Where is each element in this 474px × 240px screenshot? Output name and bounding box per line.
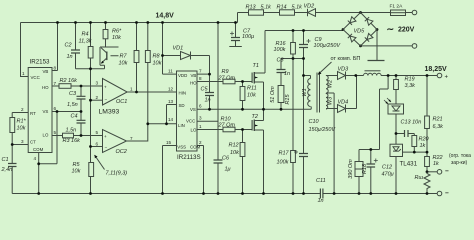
svg-text:+: + [104, 134, 107, 139]
wire VSS link [163, 146, 177, 194]
wire C9/C10 column [303, 31, 305, 194]
svg-text:11,3k: 11,3k [79, 39, 92, 45]
node dots VB 2113 [208, 73, 211, 76]
wire center tap [326, 93, 334, 194]
resistor R20 [412, 136, 417, 147]
wire output minus 1 [427, 171, 437, 173]
svg-text:VD1: VD1 [173, 46, 184, 52]
svg-text:C12: C12 [382, 165, 392, 171]
capacitor C10 electrolytic [299, 154, 308, 157]
wire W2 top to VD3 [326, 75, 338, 77]
svg-text:R14: R14 [277, 5, 287, 11]
transformer W1 winding [308, 79, 311, 107]
wire OC2 out riser to LIN/SD [127, 105, 177, 142]
svg-text:VB: VB [191, 73, 197, 78]
svg-text:10k: 10k [17, 126, 26, 132]
node dots LO line [80, 134, 83, 137]
node dots bottom rail [37, 192, 40, 195]
svg-text:TL431: TL431 [400, 161, 418, 168]
wire R12 column [242, 130, 244, 194]
IC TL431 [390, 144, 403, 156]
svg-text:COM: COM [190, 145, 201, 150]
svg-text:R12: R12 [229, 143, 239, 149]
resistor R11 [240, 87, 245, 101]
svg-text:3: 3 [96, 81, 99, 86]
svg-text:10k: 10k [112, 35, 121, 41]
svg-text:1,5n: 1,5n [66, 128, 77, 134]
svg-text:OC1: OC1 [116, 99, 127, 105]
svg-text:390 Om: 390 Om [348, 159, 354, 179]
terminal AC1 [412, 10, 417, 15]
wire OC1 out to HIN [127, 91, 176, 93]
svg-text:7: 7 [54, 81, 57, 86]
svg-text:VS: VS [190, 107, 196, 112]
resistor R18 [355, 162, 363, 177]
wire IR2153 HO to R2 to OC1+ [52, 85, 103, 87]
svg-text:12: 12 [168, 87, 174, 92]
svg-text:1,5n: 1,5n [67, 102, 78, 108]
wire R7 column [136, 23, 138, 93]
svg-text:6: 6 [96, 142, 99, 147]
wire IR2113S LO to R10 to T2 gate [197, 129, 252, 131]
node dots gate lines [241, 80, 244, 83]
svg-text:7: 7 [130, 136, 133, 141]
svg-text:T2: T2 [252, 114, 258, 120]
svg-text:2: 2 [21, 107, 24, 112]
annotation arrow 7,11 [95, 155, 105, 170]
wire T1 source jog [254, 82, 263, 109]
svg-text:C1: C1 [2, 157, 9, 163]
capacitor C13 [405, 130, 409, 137]
diode VD2 [308, 9, 316, 17]
capacitor C3 [77, 96, 86, 99]
svg-text:−: − [105, 97, 108, 102]
node dot VD1 anode [161, 54, 164, 57]
svg-text:11: 11 [168, 69, 173, 74]
svg-text:100μ/250V: 100μ/250V [314, 43, 342, 49]
transformer W3 winding [326, 94, 328, 110]
svg-text:R8: R8 [153, 54, 161, 60]
resistor R7 [134, 51, 139, 63]
svg-text:W1: W1 [302, 88, 308, 96]
svg-text:VD4: VD4 [338, 100, 349, 106]
node dots OC refs [89, 99, 92, 102]
svg-text:1n: 1n [284, 71, 290, 77]
svg-text:10k: 10k [153, 61, 162, 67]
svg-text:8: 8 [54, 66, 57, 71]
wire C3/C4 column [80, 86, 82, 136]
svg-text:R1*: R1* [17, 119, 27, 125]
svg-text:C10: C10 [309, 119, 320, 125]
terminal AC2 [412, 44, 417, 49]
svg-text:−: − [445, 190, 449, 197]
resistor R9 [223, 79, 235, 84]
svg-text:1: 1 [199, 124, 202, 129]
resistor R1* [10, 118, 15, 133]
transformer W2 winding [326, 76, 328, 94]
svg-text:HIN: HIN [179, 91, 187, 96]
svg-text:100k: 100k [274, 47, 286, 53]
capacitor C8 [277, 70, 286, 73]
svg-text:14,8V: 14,8V [156, 13, 175, 20]
resistor R3 [63, 133, 74, 138]
node dots HIN line [80, 85, 83, 88]
wire OC1 minus input [91, 99, 103, 101]
svg-text:HO: HO [190, 81, 197, 86]
svg-text:W3: W3 [328, 96, 334, 105]
resistor R10 [223, 127, 235, 132]
wire bridge minus to ground [376, 30, 378, 61]
wire VCC2113/C6 column [197, 23, 218, 194]
node dots +310 rail [292, 29, 295, 32]
capacitor C1 [8, 164, 17, 167]
IC IR2113S body [177, 71, 198, 151]
svg-text:+: + [104, 85, 107, 90]
capacitor C7 electrolytic [231, 38, 240, 41]
resistor R14 [280, 10, 295, 15]
svg-text:COM: COM [33, 147, 44, 152]
resistor R5 [89, 163, 94, 177]
svg-text:∼: ∼ [387, 24, 395, 34]
svg-text:LM393: LM393 [99, 109, 120, 116]
capacitor C6 [214, 160, 223, 163]
svg-text:F1 2A: F1 2A [390, 4, 404, 10]
svg-text:5,1k: 5,1k [261, 5, 272, 11]
svg-text:220V: 220V [398, 27, 415, 34]
svg-text:470μ: 470μ [382, 172, 394, 178]
resistor R19 [394, 80, 399, 90]
node dots on top bus [56, 21, 59, 24]
wire R6* column [105, 23, 107, 48]
svg-text:R19: R19 [405, 77, 415, 83]
svg-text:C8: C8 [277, 58, 285, 64]
capacitor C12 electrolytic [367, 164, 376, 167]
svg-text:10k: 10k [247, 93, 256, 99]
bridge rectifier VD5 [343, 13, 377, 46]
optocoupler LED U1.1 [388, 104, 404, 114]
svg-text:8: 8 [199, 76, 202, 81]
optocoupler phototransistor U1.2 [100, 47, 119, 65]
wire C12 branch [370, 150, 372, 194]
svg-text:R9: R9 [222, 69, 229, 75]
svg-text:R6*: R6* [112, 29, 122, 35]
capacitor C9 electrolytic [299, 45, 308, 48]
wire C7 column [229, 23, 242, 47]
svg-text:T1: T1 [253, 63, 259, 69]
node dot LIN riser [146, 122, 149, 125]
svg-text:SD: SD [179, 103, 185, 108]
wire T2 drain [254, 109, 263, 120]
diode VD1 [181, 52, 191, 60]
svg-text:100μ: 100μ [242, 34, 254, 40]
svg-text:от комп. БП: от комп. БП [331, 56, 361, 62]
svg-text:150μ/250V: 150μ/250V [309, 127, 337, 133]
resistor R21 [425, 116, 430, 129]
node dots output line [354, 74, 357, 77]
resistor R12 [240, 143, 245, 157]
wire bottom ground rail [12, 193, 437, 195]
svg-text:27 Om: 27 Om [218, 76, 236, 82]
node dots bridge vertices and AC [359, 11, 362, 14]
wire IR2153 VS line [52, 111, 81, 113]
svg-text:C6: C6 [222, 156, 230, 162]
svg-text:6: 6 [54, 106, 57, 111]
fuse F1 [391, 10, 406, 16]
svg-text:1k: 1k [420, 143, 426, 149]
svg-text:R5: R5 [73, 162, 81, 168]
annotation arrow to W1 [318, 62, 332, 75]
svg-text:HO: HO [42, 85, 49, 90]
resistor R15 [278, 86, 284, 103]
node dot E node [89, 67, 92, 70]
resistor R4 [88, 47, 93, 59]
transistor T1 mosfet [251, 73, 253, 84]
svg-text:13: 13 [168, 99, 174, 104]
capacitor C11 [320, 189, 323, 199]
svg-text:1μ: 1μ [225, 167, 231, 173]
diode VD4 [338, 105, 346, 113]
svg-text:R11: R11 [247, 86, 257, 92]
svg-text:1n: 1n [67, 54, 73, 60]
svg-text:7: 7 [199, 69, 202, 74]
wire reference column to OC1-/OC2-/R5 [90, 69, 92, 194]
svg-text:R2 16k: R2 16k [60, 78, 78, 84]
svg-text:VCC: VCC [186, 119, 195, 124]
svg-text:LO: LO [43, 133, 49, 138]
resistor R2 [59, 84, 71, 89]
wire VS midpoint line [197, 107, 311, 110]
svg-text:VB: VB [43, 69, 49, 74]
wire VD1/VDD column [163, 23, 177, 75]
wire VCC feed to IR2153 pin1 [21, 23, 29, 77]
svg-text:R21: R21 [433, 117, 443, 123]
svg-text:5,1k: 5,1k [292, 5, 303, 11]
svg-text:1n: 1n [318, 198, 324, 204]
wire Rsh bottom to rail [426, 191, 428, 194]
terminal minus1 [437, 170, 442, 175]
svg-text:1k: 1k [433, 161, 439, 167]
svg-text:−: − [105, 145, 108, 150]
capacitor C5 [205, 93, 214, 96]
resistor R16 [291, 43, 296, 55]
wire T2 source [254, 130, 263, 194]
svg-text:LIN: LIN [178, 123, 185, 128]
wire node M to W1 top [304, 76, 311, 79]
svg-text:VD2: VD2 [304, 4, 315, 10]
wire R19/opto/TL431 column [395, 76, 397, 194]
wire C12 jog [359, 76, 388, 162]
node dots TL431 net [395, 132, 398, 135]
svg-text:3: 3 [199, 116, 202, 121]
wire R4 column [90, 23, 92, 69]
wire R16/R17 column [292, 31, 294, 194]
svg-text:27 Om: 27 Om [218, 122, 236, 128]
svg-text:C3: C3 [69, 91, 77, 97]
svg-text:15: 15 [166, 140, 172, 145]
resistor R22 [425, 157, 430, 167]
op-amp OC1 [103, 79, 128, 106]
wire RT/R1/CT/C1 column [12, 113, 28, 194]
svg-text:10k: 10k [230, 150, 239, 156]
resistor R6* [103, 30, 108, 39]
svg-text:OC2: OC2 [116, 149, 127, 155]
svg-text:18,25V: 18,25V [425, 66, 448, 73]
capacitor C2 [71, 50, 80, 53]
svg-text:1: 1 [130, 87, 133, 92]
node dot R18/C12 [369, 148, 372, 151]
wire IR2153 pin4 COM link [39, 112, 57, 194]
svg-text:R3 16k: R3 16k [63, 138, 81, 144]
transformer core [317, 73, 320, 113]
wire node M horizontal [281, 58, 304, 60]
svg-text:VD3: VD3 [338, 67, 350, 73]
svg-text:7,11(9,3): 7,11(9,3) [106, 171, 128, 177]
svg-text:VD5: VD5 [354, 29, 366, 35]
wire COM link [197, 146, 204, 194]
svg-text:зар-ки): зар-ки) [451, 160, 467, 166]
wire output line 18V [356, 75, 437, 77]
svg-text:R15: R15 [285, 94, 291, 105]
wire W3 bottom to VD4 [326, 76, 357, 109]
node dot pin4 [37, 162, 40, 165]
wire IR2113S HO to R9 to T1 gate [197, 81, 252, 83]
svg-text:RT: RT [30, 111, 36, 116]
svg-text:1: 1 [22, 71, 25, 76]
svg-text:5: 5 [96, 130, 99, 135]
svg-text:VCC: VCC [31, 75, 40, 80]
resistor R13 [249, 10, 264, 15]
wire VD1 branch and VB of IR2113S [163, 56, 210, 75]
svg-text:−: − [445, 168, 449, 175]
wire C13/R20 branch [396, 134, 414, 153]
ground symbol primary [368, 60, 385, 62]
node dots node M [292, 57, 295, 60]
wire TL431 ref line [403, 151, 428, 153]
svg-text:C11: C11 [316, 178, 326, 184]
wire 14.8V top bus [21, 13, 413, 23]
svg-text:6,3k: 6,3k [433, 124, 444, 130]
resistor Rsh zigzag [424, 172, 430, 191]
svg-text:C5: C5 [201, 87, 209, 93]
terminal +18V [437, 73, 442, 78]
wire IR2153 LO to R3 to OC2+ [52, 135, 103, 137]
svg-text:3,3k: 3,3k [405, 83, 416, 89]
wire R18 branch [358, 177, 360, 194]
svg-text:4: 4 [34, 156, 37, 161]
wire OC2 minus input [91, 146, 103, 148]
inductor L1 [364, 73, 382, 75]
transistor T2 mosfet [251, 120, 253, 131]
capacitor C4 [77, 120, 86, 123]
svg-text:10k: 10k [72, 169, 81, 175]
svg-text:LO: LO [191, 128, 197, 133]
svg-text:R17: R17 [279, 151, 290, 157]
svg-text:VDD: VDD [178, 73, 187, 78]
svg-text:R18: R18 [362, 163, 368, 174]
terminal minus2 [437, 191, 442, 196]
wire R21/R22 column [426, 76, 428, 172]
node dots VS mid line [208, 108, 211, 111]
wire T1 drain to +310 rail [254, 31, 265, 74]
svg-text:VSS: VSS [177, 145, 186, 150]
op-amp OC2 [103, 130, 127, 153]
wire VB pin8 riser [52, 23, 58, 71]
svg-text:100k: 100k [277, 160, 289, 166]
svg-text:R13: R13 [246, 5, 257, 11]
svg-text:VS: VS [43, 109, 49, 114]
node dots IR2153 VS line [56, 110, 59, 113]
svg-text:C13 10n: C13 10n [401, 120, 422, 126]
svg-text:R7: R7 [120, 54, 128, 60]
svg-text:3: 3 [21, 139, 24, 144]
svg-text:C2: C2 [65, 43, 72, 49]
svg-text:R4: R4 [82, 32, 89, 38]
wire C2 column [75, 23, 77, 69]
svg-text:14: 14 [168, 117, 174, 122]
wire C5 column [209, 74, 211, 109]
svg-text:IR2153: IR2153 [30, 59, 51, 66]
wire R11 column [242, 82, 244, 110]
svg-text:5: 5 [54, 130, 57, 135]
svg-text:1n: 1n [205, 98, 211, 104]
wire C8/R15 snubber column [280, 59, 282, 110]
svg-text:C4: C4 [71, 114, 78, 120]
IC IR2153 body [28, 68, 52, 153]
svg-text:+: + [445, 75, 449, 81]
node E line (C2/R4/opto emitter) [76, 65, 105, 69]
wire VD3 out [346, 75, 356, 77]
svg-text:51 Om: 51 Om [270, 86, 276, 103]
svg-text:IR2113S: IR2113S [177, 154, 201, 161]
diode VD3 [338, 72, 346, 80]
svg-text:W2: W2 [328, 80, 334, 88]
svg-text:(огр. тока: (огр. тока [449, 153, 471, 159]
resistor R8 [145, 51, 150, 63]
svg-text:CT: CT [30, 140, 36, 145]
wire R8 column [147, 23, 149, 124]
svg-text:Rш: Rш [415, 175, 424, 181]
svg-text:2,4n: 2,4n [1, 167, 13, 173]
svg-text:10k: 10k [119, 61, 128, 67]
svg-text:6: 6 [199, 104, 202, 109]
wire AC bottom to terminal [361, 45, 413, 47]
resistor R17 [291, 151, 296, 163]
wire +310V rail [265, 30, 343, 32]
svg-text:2: 2 [96, 95, 99, 100]
svg-text:R20: R20 [419, 137, 430, 143]
